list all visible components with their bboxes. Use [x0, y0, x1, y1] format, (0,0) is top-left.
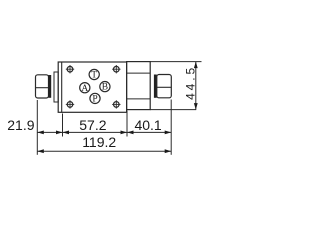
arrow right at E4 dim1 [165, 131, 172, 135]
left spacer plate [54, 72, 58, 102]
arrow up (44.5 top) [194, 62, 198, 69]
arrow right at E2 dim1 [56, 131, 63, 135]
dimension line row 1 [37, 131, 171, 133]
mounting hole top-left [66, 65, 74, 73]
left washer (dark band) [48, 75, 51, 98]
extension line E1 [36, 100, 38, 155]
mounting hole bottom-right [112, 100, 120, 108]
port B [100, 82, 110, 93]
arrow left at E1 dim2 [37, 149, 44, 153]
svg-text:119.2: 119.2 [82, 134, 116, 150]
svg-text:A: A [81, 84, 88, 94]
mounting hole bottom-left [66, 100, 74, 108]
arrow right at E3 dim1 [121, 131, 128, 135]
top extension line (44.5) [150, 61, 201, 63]
svg-text:44.5: 44.5 [183, 65, 197, 100]
arrow left at E3 dim1 [127, 131, 134, 135]
left hex nut mid line [36, 87, 49, 89]
extension line E4 [170, 100, 172, 155]
svg-text:21.9: 21.9 [7, 117, 34, 133]
left hex nut [36, 75, 49, 98]
extension line E3 [126, 111, 128, 137]
arrow down (44.5 bottom) [194, 103, 198, 110]
solenoid tube lower line [127, 98, 151, 100]
valve body (top view) [58, 62, 126, 112]
body inner left edge line [61, 62, 63, 112]
solenoid tube upper line [127, 72, 151, 74]
dimension line row 2 (119.2) [37, 150, 171, 152]
right washer (dark band) [154, 75, 157, 98]
vertical dimension line 44.5 [195, 62, 197, 110]
port T [89, 69, 99, 80]
arrow left at E2 dim1 [63, 131, 70, 135]
port A [80, 83, 90, 94]
svg-text:P: P [92, 95, 97, 105]
extension line E2 [62, 114, 64, 137]
solenoid block [127, 62, 151, 110]
bottom extension line (44.5) [150, 109, 196, 111]
svg-text:B: B [102, 83, 108, 93]
svg-text:40.1: 40.1 [134, 117, 161, 133]
right hex nut [157, 75, 172, 98]
arrow left at E1 dim1 [37, 131, 44, 135]
svg-text:57.2: 57.2 [79, 117, 106, 133]
arrow right at E4 dim2 [165, 149, 172, 153]
svg-text:T: T [91, 71, 97, 81]
right hex nut mid line [157, 86, 172, 88]
port P [90, 93, 100, 104]
mounting hole top-right [112, 65, 120, 73]
